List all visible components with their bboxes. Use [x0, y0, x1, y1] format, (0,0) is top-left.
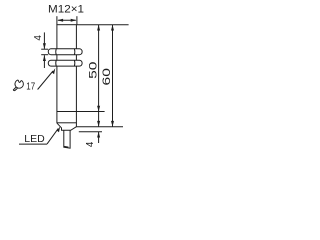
nut 2 face line left: [55, 60, 57, 66]
svg-text:4: 4: [85, 141, 96, 147]
dim 4 upper segment: [98, 112, 100, 127]
thread dimension line: [58, 19, 76, 21]
housing joint line: [57, 111, 77, 113]
dim 60 line: [112, 25, 114, 127]
nut 2 face line right: [73, 60, 75, 66]
nut 1 face line left: [55, 49, 57, 55]
dim 4 down arrow: [97, 121, 100, 127]
dim 50 line: [98, 25, 100, 112]
thread dimension extension line left: [56, 16, 58, 25]
connector stem: [64, 130, 70, 148]
thread dim arrow left: [57, 19, 63, 22]
svg-text:LED: LED: [24, 133, 45, 145]
dim 50 bottom arrow: [97, 106, 100, 112]
extension line stem: [79, 131, 102, 133]
svg-text:M12×1: M12×1: [48, 4, 84, 15]
shoulder right edge: [75, 123, 77, 127]
LED leader arrowhead: [57, 126, 60, 132]
svg-text:17: 17: [26, 81, 35, 92]
svg-text:60: 60: [100, 68, 112, 85]
dim 4 lower segment: [98, 132, 100, 143]
leader arrowhead: [52, 68, 55, 74]
LED underline: [19, 143, 47, 145]
top extension line to right dims: [77, 24, 129, 26]
nut dim arrow up: [43, 55, 46, 61]
thread dim arrow right: [71, 19, 77, 22]
nut 1 face line right: [73, 49, 75, 55]
nut thickness extension line bottom: [41, 54, 48, 56]
LED leader: [47, 129, 58, 145]
nut dim arrow down: [43, 43, 46, 49]
extension line 50: [76, 111, 104, 113]
dim 4 up arrow: [97, 132, 100, 138]
nut dim line upper segment: [43, 32, 45, 48]
hex nut 2: [48, 60, 82, 66]
dim 50 top arrow: [97, 25, 100, 31]
shoulder outline: [57, 123, 76, 130]
leader line to nut 2: [38, 71, 53, 90]
sensor barrel body: [57, 25, 77, 123]
stem bottom mark: [64, 146, 68, 149]
nut dim line lower segment: [43, 55, 45, 68]
svg-text:50: 50: [87, 62, 99, 79]
thread dimension extension line right: [76, 16, 78, 25]
wrench icon: [13, 80, 23, 91]
dim 60 bottom arrow: [111, 121, 114, 127]
nut thickness extension line top: [41, 48, 48, 50]
dim 60 top arrow: [111, 25, 114, 31]
extension line 60: [76, 126, 123, 128]
hex nut 1: [48, 49, 82, 55]
svg-text:4: 4: [33, 35, 44, 41]
